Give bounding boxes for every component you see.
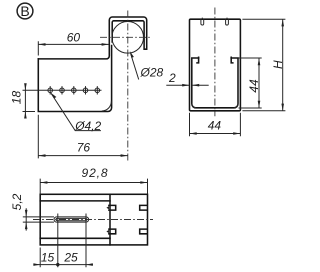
right lip section tab upper (140, 205, 147, 210)
svg-text:25: 25 (63, 250, 78, 264)
slot inner lines (56, 218, 87, 220)
svg-text:18: 18 (9, 91, 23, 105)
left lip hook (197, 57, 199, 63)
channel inner cavity (192, 58, 238, 108)
bottom view centerline (33, 219, 153, 221)
dimension 18 (9, 83, 35, 118)
leader and label Ø28 (130, 51, 164, 80)
svg-text:2: 2 (168, 71, 176, 85)
holes line (23, 89, 102, 91)
hole H2 (60, 86, 65, 94)
dimension 5,2 (10, 193, 54, 230)
vertical centerline of hook (127, 11, 129, 161)
dimension 2 wall thickness (166, 71, 208, 86)
left lip section tab upper (109, 205, 116, 210)
hole H5 (95, 86, 100, 94)
svg-text:76: 76 (77, 141, 91, 155)
hole H1 (48, 86, 53, 94)
slot outer capsule (54, 217, 89, 222)
svg-text:5,2: 5,2 (10, 193, 24, 210)
dimension 92,8 (40, 166, 147, 194)
svg-text:Ø4,2: Ø4,2 (74, 119, 101, 133)
svg-text:Ø28: Ø28 (140, 66, 164, 80)
clamped rod circle Ø28 (112, 22, 144, 54)
horizontal centerline of rod (100, 36, 151, 38)
svg-text:44: 44 (247, 79, 261, 93)
dimension 44 vertical right (239, 58, 262, 108)
svg-text:H: H (271, 60, 285, 69)
view label B (17, 3, 33, 19)
left lip wedge lower (106, 230, 109, 233)
svg-text:15: 15 (41, 250, 55, 264)
left lip section tab lower (109, 229, 116, 234)
bottom view: plate end vertical (109, 194, 111, 245)
front view: channel outer outline (190, 19, 241, 111)
dimension 60 (38, 30, 109, 55)
vertical centerline of channel (214, 8, 216, 117)
right lip section tab lower (140, 229, 147, 234)
left lip wedge upper (106, 206, 109, 209)
leader and label Ø4,2 (51, 93, 102, 133)
svg-text:B: B (20, 3, 29, 19)
bottom view: outer outline (40, 194, 147, 245)
notch left on top (201, 18, 204, 25)
dimensions 15 and 25 (33, 214, 93, 268)
dimension 44 bottom (190, 113, 241, 136)
dimension H (242, 19, 285, 111)
side view: bracket body outline (38, 46, 111, 112)
svg-text:92,8: 92,8 (82, 166, 109, 180)
dimension 76 (38, 115, 128, 159)
right lip hook (231, 57, 233, 63)
hole H3 (72, 86, 77, 94)
svg-text:44: 44 (208, 119, 222, 133)
hole H4 (83, 86, 88, 94)
notch right on top (226, 18, 229, 25)
side view: hook outer contour (38, 17, 146, 59)
bottom view: plate inner edges (40, 201, 110, 238)
inner fillet bottom-right (234, 103, 238, 107)
inner fillet bottom-left (192, 103, 196, 107)
svg-text:60: 60 (67, 30, 81, 44)
side view: bend relief arc bottom-right (102, 101, 112, 111)
